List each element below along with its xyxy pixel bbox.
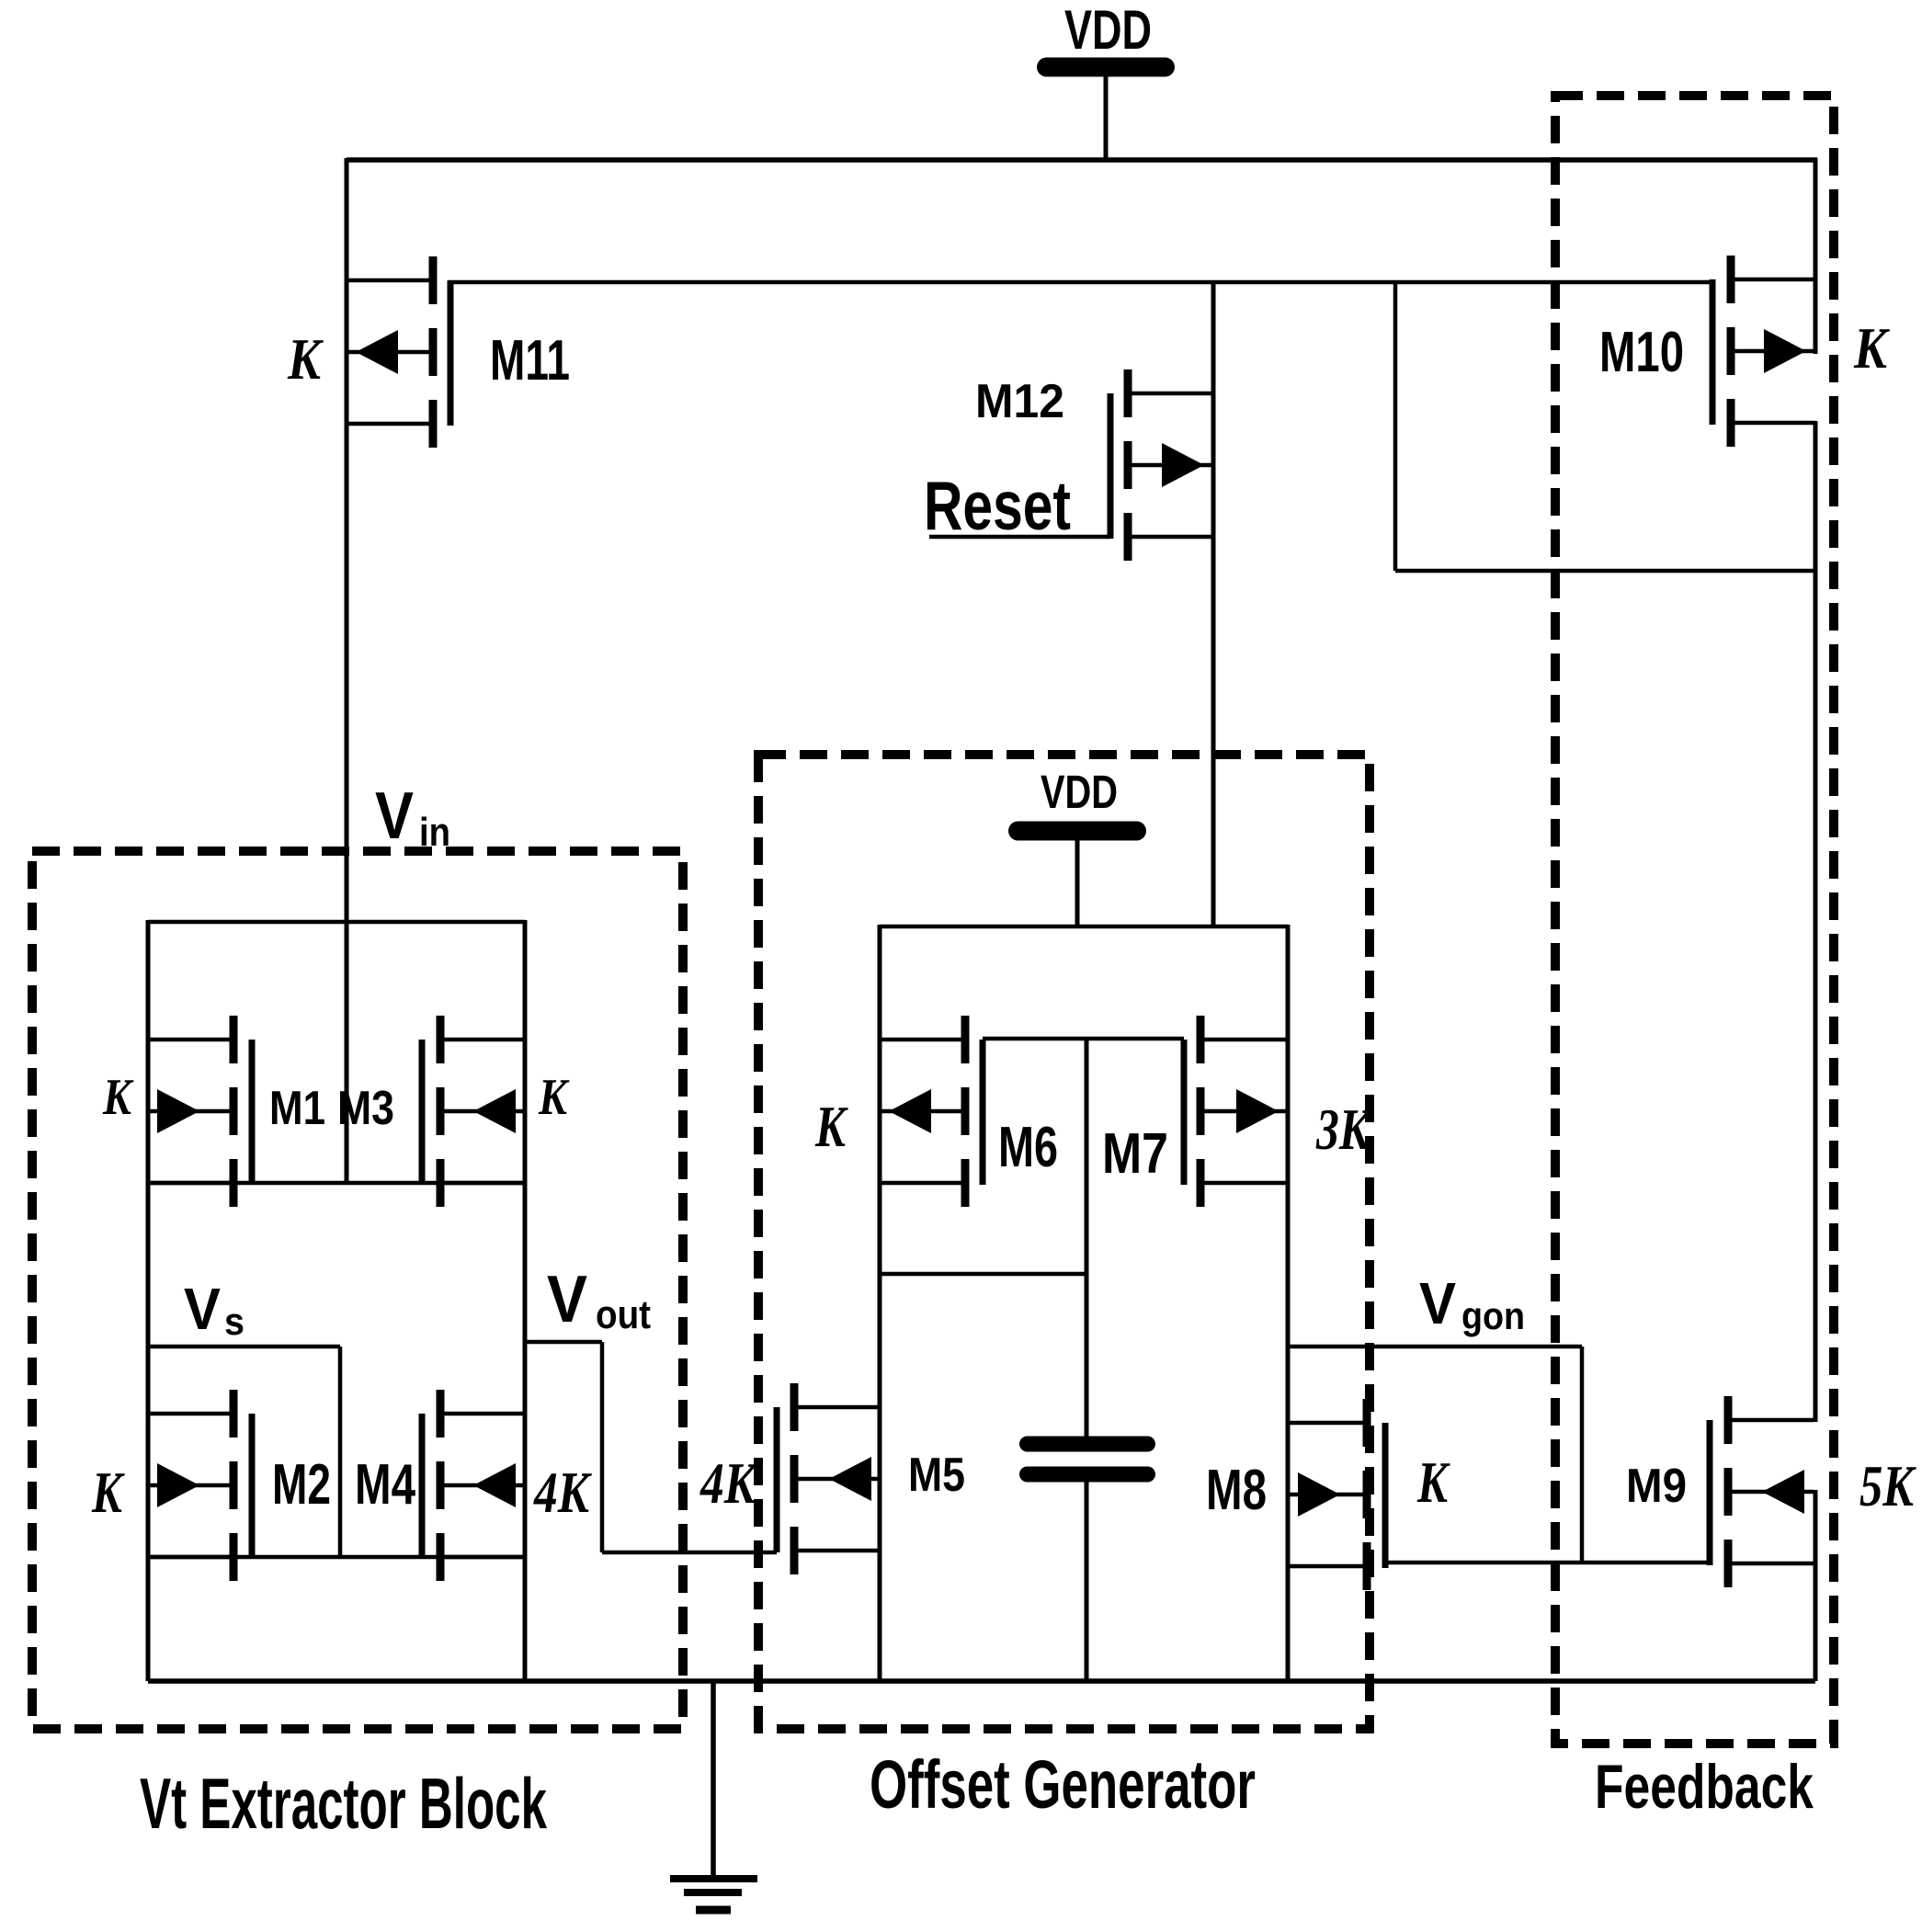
wire M7/M8 outer bus (1286, 925, 1291, 1681)
wire M1/M3 source-gate line (148, 1181, 525, 1186)
svg-text:V: V (184, 1276, 221, 1342)
transistor M2 (148, 1390, 252, 1581)
power VDD (top) (1047, 0, 1166, 162)
svg-text:M11: M11 (490, 329, 570, 392)
node VDD top rail (347, 157, 1817, 163)
svg-text:s: s (224, 1300, 245, 1343)
svg-text:gon: gon (1461, 1294, 1525, 1337)
wire bias tap down (1393, 280, 1398, 571)
wire M3 outer bus (523, 920, 528, 1681)
svg-text:M8: M8 (1206, 1459, 1267, 1522)
svg-text:K: K (102, 1069, 134, 1126)
wire M11 drain/source bus + Vin drop (345, 158, 349, 1183)
capacitor C1 (1028, 1444, 1148, 1474)
wire bias tap across to M10 source (1395, 569, 1817, 574)
wire M10 source down (1814, 421, 1818, 571)
svg-text:V: V (375, 779, 414, 853)
wire VDD rail corner to M10 drain (1814, 158, 1818, 354)
svg-text:M9: M9 (1626, 1460, 1687, 1513)
svg-text:K: K (1853, 315, 1890, 381)
svg-text:K: K (814, 1094, 848, 1159)
wire M1/M3 drain rail (148, 920, 525, 925)
transistor M8 (1289, 1399, 1385, 1590)
svg-text:M7: M7 (1102, 1122, 1168, 1186)
transistor M11 (347, 256, 450, 448)
transistor M5 (777, 1383, 881, 1574)
block box Vt Extractor (32, 851, 683, 1729)
wire Reset to M12 gate (929, 535, 1110, 540)
wire offset inner rail (880, 925, 1288, 929)
svg-text:5K: 5K (1859, 1453, 1916, 1518)
svg-text:Vt Extractor Block: Vt Extractor Block (140, 1763, 547, 1844)
wire M5 drain tap to capacitor node (880, 1272, 1086, 1277)
svg-text:M2: M2 (272, 1453, 331, 1517)
svg-text:4K: 4K (533, 1460, 592, 1525)
wire M6/M5 outer bus (878, 925, 882, 1681)
wire bias rail (M11/M10/M12 gates) (449, 280, 1712, 285)
power VDD (offset generator) (1018, 766, 1137, 928)
svg-text:in: in (419, 810, 450, 855)
wire capacitor bottom to ground rail (1085, 1482, 1089, 1681)
transistor M6 (880, 1016, 983, 1207)
svg-text:M10: M10 (1599, 321, 1684, 384)
svg-text:VDD: VDD (1064, 0, 1152, 61)
block box Offset Generator (758, 755, 1370, 1729)
wire Vout tap (525, 1340, 602, 1345)
svg-text:M1: M1 (269, 1082, 325, 1135)
wire M8/M9 gate line (1385, 1561, 1710, 1565)
svg-text:V: V (547, 1263, 587, 1336)
svg-text:VDD: VDD (1041, 766, 1118, 818)
wire M2/M4 source-gate line (148, 1555, 525, 1560)
svg-text:K: K (1416, 1449, 1450, 1515)
svg-text:Feedback: Feedback (1595, 1752, 1814, 1822)
wire Vs down to M2/M4 gates (338, 1347, 343, 1557)
svg-text:3K: 3K (1315, 1097, 1372, 1162)
transistor M10 (1712, 256, 1815, 447)
transistor M9 (1710, 1396, 1814, 1587)
svg-text:K: K (91, 1460, 125, 1525)
transistor M3 (422, 1016, 525, 1207)
svg-text:Offset Generator: Offset Generator (870, 1746, 1256, 1823)
wire M9 source to ground rail (1814, 1490, 1818, 1681)
wire M6-M7 gate link (983, 1037, 1184, 1041)
svg-text:K: K (538, 1069, 570, 1126)
wire Vgon horizontal (1288, 1345, 1582, 1349)
wire Vout down (600, 1342, 605, 1552)
svg-text:4K: 4K (699, 1450, 758, 1516)
wire ground rail (148, 1678, 1815, 1684)
transistor M4 (422, 1390, 525, 1581)
wire Vs horizontal (148, 1345, 340, 1349)
wire Vgon down (1580, 1347, 1585, 1563)
svg-text:M5: M5 (908, 1449, 965, 1502)
svg-text:K: K (287, 326, 324, 392)
wire gate link down to capacitor (1085, 1039, 1089, 1437)
transistor M7 (1184, 1016, 1288, 1207)
wire M10 source to M9 drain (1814, 571, 1818, 1422)
wire M12 drain-source line (1211, 280, 1216, 928)
svg-text:M3: M3 (337, 1082, 394, 1135)
block box Feedback (1555, 96, 1834, 1744)
wire Vout to M5 gate (602, 1551, 777, 1555)
svg-text:Reset: Reset (924, 467, 1071, 544)
svg-text:M12: M12 (975, 375, 1064, 428)
transistor M12 (1110, 369, 1213, 561)
ground (670, 1681, 757, 1910)
svg-text:out: out (596, 1292, 651, 1337)
transistor M1 (148, 1016, 252, 1207)
svg-text:M4: M4 (355, 1453, 415, 1517)
wire M1 outer bus (146, 920, 151, 1681)
svg-text:M6: M6 (998, 1116, 1058, 1179)
svg-text:V: V (1419, 1270, 1456, 1336)
